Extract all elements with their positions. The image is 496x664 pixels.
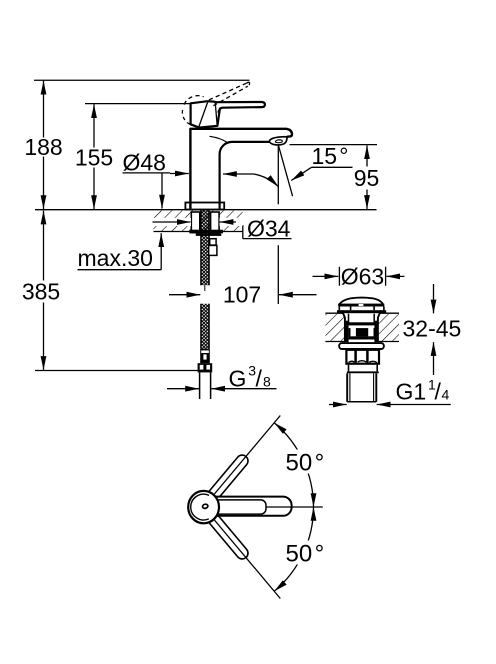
label Ø48 with leaders [123,150,254,209]
top view: diagonal line upper [214,416,280,495]
wire extension line top (188 datum, lever raised tip level) [34,79,250,81]
top view: diagonal line lower [214,520,280,599]
svg-text:50°: 50° [286,450,325,477]
svg-text:/: / [256,365,263,391]
side fitting on shank [209,239,217,256]
top view: swing arc upper 50 [274,423,313,507]
svg-text:G1: G1 [396,378,427,404]
dashed lever raised position [182,82,249,126]
svg-text:385: 385 [22,279,60,305]
drain body through counter (mask) [342,310,381,343]
svg-text:107: 107 [223,282,261,308]
dimension Ø34 arrows [152,218,243,226]
node vertical reference line from aerator [277,145,279,304]
aerator [269,137,287,145]
top view: lever rotated down 50deg [205,511,250,561]
wire extension line aerator level [290,144,378,146]
label 15deg with arc arrows [254,143,353,187]
svg-text:15°: 15° [312,143,349,169]
svg-text:Ø34: Ø34 [247,216,291,242]
svg-text:Ø48: Ø48 [123,150,166,176]
wire extension line bottom (hose end level) [35,370,199,372]
dimension 95 [354,145,380,209]
mounting hole sleeves below deck [191,212,219,233]
top view: lever rotated up 50deg [205,453,250,503]
counter hatch band right [325,313,399,341]
label max.30 with leader [78,233,162,271]
svg-text:4: 4 [442,386,450,402]
dimension G1 1/4 [329,377,451,405]
svg-text:32-45: 32-45 [403,315,462,341]
faucet body outline [190,129,292,209]
dimension 155 [75,104,113,209]
drain dome cap [337,298,386,314]
wire water stream line 15deg [278,145,292,196]
svg-text:/: / [435,378,442,404]
drain threaded tail G1 1/4 [347,365,379,402]
top view: centerline right [267,506,323,508]
label Ø34 in box [243,205,292,242]
hose ferrule [200,349,210,364]
top view: lever horizontal [205,497,292,516]
faucet base plate [185,203,224,210]
wire extension line (155 datum, lever rest level) [85,103,190,105]
drain overflow windows [348,322,375,339]
drain hex nut [346,350,379,364]
dimension Ø63 [313,263,405,289]
dimension 32-45 [403,284,462,375]
svg-text:G: G [229,365,247,391]
dimension 385 [22,211,60,370]
clamping washer dark bars [189,230,223,236]
svg-text:95: 95 [354,165,380,191]
hose nut G3/8 [198,363,213,372]
threaded shank braided section upper [201,210,209,291]
svg-text:188: 188 [24,134,62,160]
label 50deg upper [282,450,328,477]
dimension 188 [24,81,62,209]
svg-text:Ø63: Ø63 [341,263,384,289]
dimension G3/8 [167,363,277,392]
dimension 107 [169,282,317,308]
svg-text:50°: 50° [286,540,325,567]
svg-text:8: 8 [263,373,271,389]
label 50deg lower [282,540,328,567]
flexible hose braided section lower [201,304,209,349]
hose end tube [200,372,211,399]
handle with lever [191,101,265,127]
svg-text:155: 155 [75,145,113,171]
top view: faucet body circle [188,491,219,523]
deck top line [35,209,377,211]
drain collar washer [339,343,384,349]
top view: swing arc lower 50 [274,507,313,591]
deck hatch band left [154,211,244,232]
svg-text:max.30: max.30 [78,245,153,271]
